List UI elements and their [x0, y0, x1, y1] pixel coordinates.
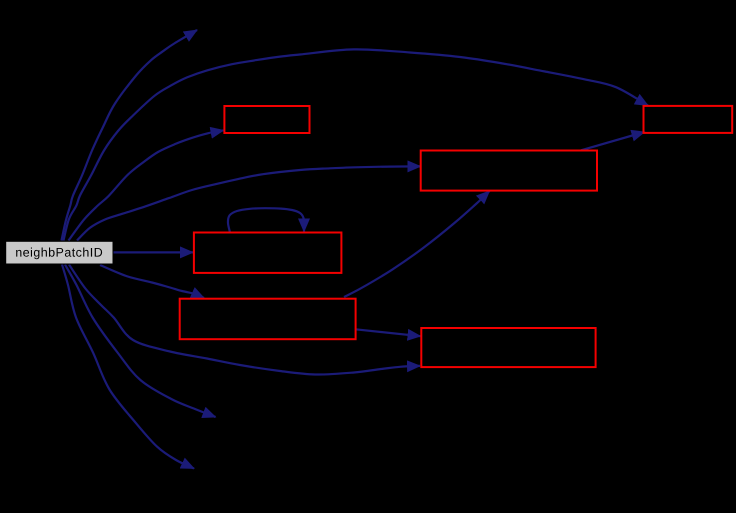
- edge neighbPatchID to box B1: [69, 130, 224, 240]
- box B4 truncated node: [194, 233, 342, 273]
- edge neighbPatchID to hidden low node: [62, 265, 194, 469]
- edge neighbPatchID to box B5: [100, 265, 204, 298]
- box B3 truncated node: [644, 106, 733, 133]
- box B5 truncated node: [180, 299, 356, 340]
- node neighbPatchID current node grey: [6, 241, 113, 264]
- box B2 truncated node: [421, 151, 597, 191]
- edge box B2 to box B3: [581, 132, 645, 150]
- edge neighbPatchID to box B6: [69, 265, 420, 375]
- edge neighbPatchID to hidden mid node: [65, 265, 216, 418]
- edge box B4 self-loop: [228, 208, 304, 232]
- box B6 truncated node: [421, 328, 595, 367]
- edge neighbPatchID to hidden top node: [62, 30, 198, 241]
- edge neighbPatchID to box B4: [113, 251, 193, 253]
- edge box B5 to box B2: [344, 191, 490, 297]
- box B1 truncated node: [224, 106, 309, 133]
- edge neighbPatchID to box B3: [64, 49, 649, 240]
- edge neighbPatchID to box B2: [77, 166, 421, 240]
- edge box B5 to box B6: [356, 329, 421, 336]
